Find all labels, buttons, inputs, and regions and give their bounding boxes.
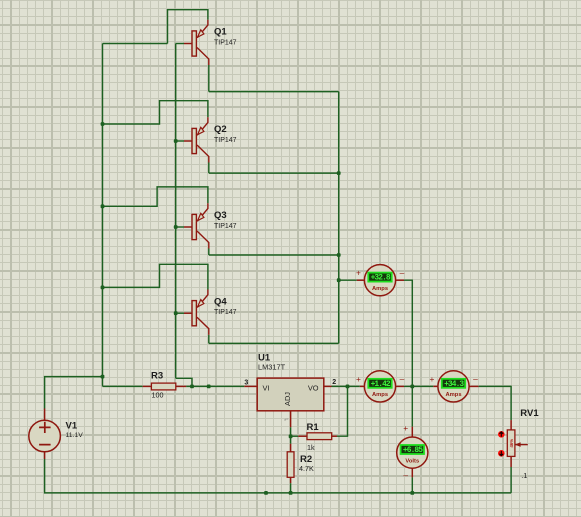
wire A1 to output node	[404, 280, 412, 386]
svg-text:3: 3	[244, 379, 248, 386]
lead voltmeter negative	[411, 468, 413, 477]
svg-text:–: –	[400, 267, 405, 277]
junction base rail/Q4	[174, 311, 178, 315]
junction rail/Q2 feed	[101, 122, 105, 126]
transistor Q4 (TIP147, PNP)	[184, 290, 209, 335]
svg-text:TIP147: TIP147	[214, 223, 237, 230]
svg-text:VI: VI	[263, 383, 270, 392]
transistor Q2 (TIP147, PNP)	[184, 117, 209, 162]
svg-text:*”: *”	[284, 419, 288, 425]
junction R3 right node	[190, 385, 194, 389]
svg-text:Volts: Volts	[405, 458, 419, 464]
meter A3 (ammeter): LCD display	[442, 379, 465, 389]
svg-text:+: +	[403, 423, 408, 433]
svg-text:Q1: Q1	[214, 27, 227, 38]
wire base Q4	[176, 312, 184, 314]
svg-text:+: +	[430, 374, 435, 384]
lead R2 top	[290, 444, 292, 452]
lead V1 positive	[44, 409, 46, 421]
lead R3 right	[176, 385, 186, 387]
lead RV1 top	[510, 420, 512, 430]
transistor Q3 (TIP147, PNP)	[184, 203, 209, 248]
svg-text:+34.3: +34.3	[444, 380, 464, 389]
wire Q1 collector drop	[208, 65, 210, 92]
svg-text:100: 100	[152, 390, 164, 399]
lead U1 pin 3	[244, 385, 257, 387]
lead RV1 bottom	[510, 456, 512, 467]
svg-text:LM317T: LM317T	[258, 362, 286, 371]
potentiometer RV1 wiper arrow	[515, 444, 528, 446]
svg-text:TIP147: TIP147	[214, 309, 237, 316]
svg-text:+1.42: +1.42	[371, 380, 391, 389]
wire Q4 emitter feed	[103, 264, 208, 289]
lead V1 negative	[44, 452, 46, 459]
junction rail/Q3 feed	[101, 204, 105, 208]
RV1 decrement button	[498, 450, 505, 457]
svg-text:RV1: RV1	[520, 408, 539, 419]
svg-text:R1: R1	[307, 422, 320, 433]
RV1 increment button	[498, 431, 505, 438]
wire voltmeter to ground rail	[411, 477, 413, 493]
potentiometer RV1 body	[507, 430, 515, 457]
svg-text:–: –	[473, 374, 478, 384]
wire Q1 collector bus	[209, 91, 339, 93]
wire Q4 collector bus	[209, 342, 339, 344]
junction output node	[410, 385, 414, 389]
svg-text:4.7K: 4.7K	[299, 464, 314, 473]
lead R3 left	[143, 385, 152, 387]
lead U1 pin 2	[324, 385, 332, 387]
wire R2 to ground rail	[290, 483, 292, 493]
wire bottom return rail	[45, 459, 512, 493]
meter VM (voltmeter): LCD display	[401, 445, 424, 455]
resistor R1	[307, 433, 332, 440]
wire Q4 collector drop	[208, 335, 210, 344]
svg-text:+6.85: +6.85	[403, 446, 423, 455]
lead U1 ADJ pin	[290, 411, 292, 428]
svg-text:2: 2	[332, 379, 336, 386]
node marker on ground rail	[264, 491, 268, 495]
svg-text:V1: V1	[66, 421, 78, 432]
wire output node to voltmeter	[411, 386, 413, 426]
svg-text:ADJ: ADJ	[283, 392, 292, 406]
wire Q3 emitter feed	[103, 187, 208, 206]
wire ADJ node to R1	[291, 435, 299, 437]
wire Q1 emitter to rail	[103, 43, 168, 45]
wire output node to A3	[412, 385, 433, 387]
svg-text:R3: R3	[151, 371, 163, 382]
source V1 body	[29, 420, 61, 452]
svg-text:VO: VO	[308, 383, 319, 392]
wire R3 to U1 VI	[186, 385, 244, 387]
junction base rail/Q2	[174, 139, 178, 143]
wire R1 to VO node	[337, 386, 348, 436]
lead R1 left	[298, 435, 307, 437]
lead A3 negative	[469, 385, 479, 387]
meter A2 (ammeter): LCD display	[368, 379, 391, 389]
svg-text:R2: R2	[300, 454, 312, 465]
resistor R3	[151, 383, 175, 390]
svg-text:TIP147: TIP147	[214, 137, 237, 144]
wire rail to V1 positive	[45, 377, 103, 409]
lead A3 positive	[433, 385, 438, 387]
meter VM (voltmeter): circle body	[397, 437, 428, 468]
svg-text:+: +	[356, 268, 361, 278]
wire left emitter rail	[102, 44, 104, 387]
wire Q1 emitter loop	[168, 10, 208, 44]
svg-text:TIP147: TIP147	[214, 39, 237, 46]
wire base rail	[175, 44, 177, 379]
junction ground/R2	[289, 491, 293, 495]
lead voltmeter positive	[411, 427, 413, 437]
svg-text:Amps: Amps	[372, 392, 388, 398]
junction VO/R1	[346, 385, 350, 389]
wire Q3 collector bus	[209, 254, 339, 256]
wire A2 to output node	[404, 385, 412, 387]
meter A1 (ammeter): circle body	[364, 265, 395, 296]
meter A1 (ammeter): LCD display	[368, 273, 391, 283]
wire Q3 collector drop	[208, 249, 210, 256]
svg-text:Amps: Amps	[372, 286, 388, 292]
svg-text:Q4: Q4	[214, 296, 227, 307]
junction rail/V1	[101, 375, 105, 379]
svg-text:+32.8: +32.8	[371, 274, 391, 283]
wire Q2 collector drop	[208, 163, 210, 174]
meter A2 (ammeter): circle body	[364, 371, 395, 402]
wire bus to ammeter A1	[339, 279, 357, 281]
svg-text:11.1V: 11.1V	[66, 432, 84, 439]
resistor R2	[287, 452, 294, 478]
wire collector bus vertical	[338, 92, 340, 344]
svg-text:Q2: Q2	[214, 124, 227, 135]
svg-text:46%: 46%	[509, 439, 514, 448]
wire A3 to RV1	[479, 386, 512, 420]
svg-text:–: –	[403, 470, 408, 480]
wire Q2 emitter feed	[103, 101, 208, 124]
svg-text:Amps: Amps	[445, 392, 461, 398]
junction bus/A1	[337, 278, 341, 282]
lead A2 negative	[396, 385, 404, 387]
junction ADJ/R1/R2	[289, 434, 293, 438]
lead A1 negative	[396, 279, 404, 281]
svg-text:–: –	[400, 374, 405, 384]
junction ground/voltmeter	[410, 491, 414, 495]
wire base Q3	[176, 226, 184, 228]
svg-text:+: +	[356, 374, 361, 384]
svg-text:Q3: Q3	[214, 210, 227, 221]
wire ADJ node	[290, 427, 292, 444]
junction base rail/Q3	[174, 225, 178, 229]
meter A3 (ammeter): circle body	[438, 371, 469, 402]
svg-text:.1: .1	[521, 471, 527, 480]
wire rail to R3	[103, 385, 143, 387]
wire Q2 collector bus	[209, 172, 339, 174]
junction rail/Q4 feed	[101, 286, 105, 290]
lead A1 positive	[357, 279, 365, 281]
wire U1 VO to A2	[332, 385, 360, 387]
lead R1 right	[332, 435, 337, 437]
node marker on VI wire	[207, 385, 211, 389]
lead A2 positive	[360, 385, 365, 387]
junction bus/Q2 collector	[337, 171, 341, 175]
wire base Q2	[176, 140, 184, 142]
wire base Q1	[176, 43, 184, 45]
wire base rail to R3 node	[176, 378, 192, 386]
lead R2 bottom	[290, 477, 292, 483]
regulator U1 LM317T body	[257, 378, 324, 411]
junction bus/Q3 collector	[337, 253, 341, 257]
wire RV1 to ground rail	[510, 467, 512, 493]
svg-text:1k: 1k	[307, 443, 315, 452]
transistor Q1 (TIP147, PNP)	[184, 20, 209, 65]
